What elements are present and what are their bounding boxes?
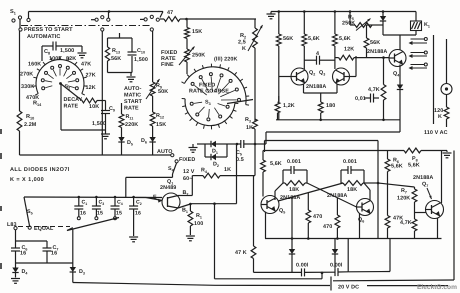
wire S5 to C6 — [15, 230, 17, 248]
wire 1.2K top — [278, 77, 280, 103]
trigger diode b — [332, 239, 338, 269]
label 4.7K ff — [400, 220, 412, 226]
label 1.2K — [283, 103, 295, 109]
wire Q5 emitter down — [265, 212, 267, 239]
wire C7 down — [46, 251, 48, 263]
svg-text:250K: 250K — [192, 53, 205, 59]
capacitor C3 — [92, 197, 101, 217]
arrow to Q7 — [427, 188, 432, 199]
resistor R6 5.6K — [385, 159, 390, 172]
capacitor C10 — [128, 52, 137, 55]
pot R2 2.5K — [248, 25, 263, 51]
wire lamp to 120K — [446, 95, 448, 108]
label 0.001 c — [296, 263, 309, 269]
diode Q4 emitter — [397, 85, 403, 133]
label R13 — [112, 48, 120, 55]
svg-text:0,01: 0,01 — [355, 96, 366, 102]
label 110 V AC — [424, 130, 448, 136]
svg-text:K: K — [438, 114, 442, 120]
wire R10 down — [19, 131, 21, 155]
transistor Q5 — [261, 196, 279, 214]
label 0.01 — [355, 96, 366, 102]
svg-text:RATE COARSE: RATE COARSE — [189, 89, 229, 95]
wiper S3 — [227, 100, 253, 104]
capacitor C2 — [129, 197, 138, 230]
svg-text:12 V: 12 V — [183, 169, 195, 175]
resistor 5.6K ff — [261, 160, 266, 172]
label 20 V DC — [338, 285, 359, 291]
label R11 value — [125, 122, 138, 128]
wire diode node down — [382, 25, 384, 35]
wire Q4 emitter down — [399, 65, 401, 85]
relay K1 contacts — [409, 38, 428, 71]
svg-text:2.2M: 2.2M — [24, 122, 37, 128]
svg-text:16: 16 — [80, 211, 86, 217]
svg-text:56K: 56K — [283, 36, 293, 42]
wire pole2 down — [101, 31, 103, 155]
label R6 — [393, 158, 399, 165]
label L83 — [7, 222, 17, 228]
box R13 C10 — [108, 38, 133, 73]
svg-text:15: 15 — [116, 211, 122, 217]
node top rail junction — [108, 10, 111, 13]
lamp — [441, 84, 452, 95]
label R14 — [33, 101, 42, 108]
label D3 — [79, 269, 85, 276]
wire box stub — [119, 33, 121, 38]
label 27K tap — [86, 73, 96, 79]
svg-text:2N188A: 2N188A — [306, 84, 326, 90]
resistor 56K a — [276, 34, 281, 46]
node C1 top — [78, 196, 81, 199]
label 120K — [434, 108, 443, 120]
wire C6 down — [15, 251, 17, 263]
cap 0.001 a loop — [283, 166, 307, 183]
pot 250K FINE — [179, 47, 195, 66]
label 160K — [28, 61, 41, 67]
wire 120K down — [446, 119, 448, 127]
label R1 value — [194, 221, 203, 227]
svg-text:47: 47 — [167, 10, 173, 16]
wire R2 feed — [254, 19, 256, 28]
switch pole2 contacts — [95, 16, 110, 32]
svg-text:5,6K: 5,6K — [308, 36, 320, 42]
capacitor C9 — [101, 111, 110, 114]
svg-text:RATE: RATE — [124, 106, 139, 112]
label D5 — [127, 140, 133, 147]
capacitor C5 — [237, 140, 255, 148]
label 2N188A q7 — [413, 175, 433, 181]
switch S1 label — [10, 9, 16, 16]
label 47K ff — [393, 216, 403, 222]
label R10 value — [24, 122, 37, 128]
wire R7 feed — [378, 183, 415, 187]
wire contact to lamp — [446, 39, 448, 84]
node Q4 base — [382, 56, 385, 59]
cross wire a — [307, 183, 357, 207]
rotary switch S3 lower — [182, 99, 239, 130]
wire K1 to Q4 collector — [383, 31, 416, 50]
wire right edge — [453, 151, 455, 281]
svg-text:2,5: 2,5 — [238, 40, 246, 46]
label C1 — [82, 200, 88, 207]
label R8 — [412, 156, 418, 163]
wire 5.6K b feed — [303, 12, 305, 35]
speck 2 — [0, 153, 2, 159]
wire contact feed right — [433, 35, 435, 124]
transistor Q1 2N489 — [162, 193, 180, 211]
wire R9 to R12 — [152, 96, 154, 112]
wire diode bus — [16, 262, 73, 264]
relay K1 coil — [411, 21, 422, 31]
wire emitter bus — [304, 84, 338, 102]
wire S1 riser — [28, 12, 30, 19]
label 10K — [89, 104, 99, 110]
label R7 value — [397, 196, 410, 202]
label C5 — [236, 150, 242, 157]
wire C6 C7 top link — [16, 241, 48, 248]
pot R5 250K — [350, 12, 372, 31]
svg-text:270K: 270K — [20, 72, 33, 78]
svg-text:60~: 60~ — [183, 176, 192, 182]
wire S2 common to ground bus — [61, 84, 106, 130]
resistor 47K ff — [385, 216, 390, 239]
resistor 470 a — [306, 193, 311, 240]
wire Q2 base — [278, 46, 280, 77]
label 2N188A q6 — [327, 193, 347, 199]
dashed link EQUAL — [18, 226, 70, 228]
diode network D1 — [205, 141, 227, 147]
resistor 47K bl — [251, 176, 256, 273]
resistor 5.6K c — [333, 34, 338, 46]
svg-text:1,500: 1,500 — [60, 48, 74, 54]
wire B1 to R1 — [178, 203, 192, 211]
svg-text:15: 15 — [97, 211, 103, 217]
label Q1 — [167, 179, 173, 186]
label K1 — [424, 22, 430, 29]
label R7 — [401, 188, 407, 195]
label C9 value — [92, 121, 106, 127]
wire D6 down — [152, 142, 154, 155]
svg-text:AUTOMATIC: AUTOMATIC — [27, 34, 60, 40]
label FIXED — [179, 157, 195, 163]
resistor 15K — [185, 28, 190, 39]
transistor Q2 — [291, 68, 308, 85]
svg-text:16: 16 — [135, 211, 141, 217]
svg-text:1K: 1K — [224, 167, 231, 173]
svg-text:1K: 1K — [246, 125, 253, 131]
wire R6 bottom — [387, 172, 389, 216]
label 2N188A q5 — [280, 195, 300, 201]
switch S5 arm — [24, 197, 30, 226]
wire C9 bottom — [105, 114, 107, 131]
wire 56K a feed — [278, 12, 280, 35]
ground top rail — [267, 12, 276, 19]
wire loop b to x378 — [364, 182, 378, 184]
svg-text:1,500: 1,500 — [134, 57, 148, 63]
cap 0.001 b loop — [341, 166, 364, 183]
label Q5 — [279, 208, 285, 215]
label 56K d — [370, 40, 380, 46]
label R10 — [26, 114, 34, 121]
label C3 — [99, 200, 105, 207]
watermark — [417, 284, 457, 291]
trigger diode a — [289, 198, 295, 273]
label R12 — [156, 113, 164, 120]
svg-text:0.001: 0.001 — [343, 159, 357, 165]
wire D1 top side — [197, 143, 205, 145]
label C3 value — [97, 211, 103, 217]
svg-text:2N188A: 2N188A — [367, 49, 387, 55]
ground D1 D2 — [189, 144, 198, 152]
svg-text:16: 16 — [20, 251, 26, 257]
wire D3 top — [72, 229, 74, 267]
wire B2 vertical drop — [214, 204, 216, 279]
label 470 b — [323, 224, 332, 230]
riser A — [347, 239, 349, 272]
diode D6 — [149, 137, 155, 142]
wire 56K d feed — [367, 25, 373, 38]
label R5 value — [342, 21, 355, 27]
wire C8 to ground — [81, 46, 83, 52]
svg-text:120K: 120K — [397, 196, 410, 202]
wire Q2 base lead — [279, 76, 291, 78]
wire Q1 emitter — [136, 198, 163, 203]
wiper S2 — [61, 84, 83, 101]
wire left vertical bus — [19, 31, 21, 111]
svg-text:K: K — [242, 46, 246, 52]
wire S4 to cap bus — [126, 174, 173, 197]
label 18K a — [289, 187, 299, 193]
label C8 value — [60, 48, 74, 54]
label Q3 — [319, 70, 325, 77]
label 4 — [316, 51, 319, 57]
label R2 — [240, 33, 246, 40]
label Q7 — [422, 182, 428, 189]
transistor Q7 — [426, 201, 444, 219]
resistor 4.7K q4 — [381, 85, 386, 101]
diode network D2 — [205, 154, 227, 160]
label 470 a — [313, 214, 322, 220]
svg-text:AUTO-: AUTO- — [124, 86, 142, 92]
label 0.001 d — [330, 263, 343, 269]
svg-text:56K: 56K — [111, 56, 121, 62]
switch S4 arm — [173, 163, 177, 174]
coupling cap 4 — [304, 56, 335, 65]
label C2 value — [135, 211, 141, 217]
wire R4 to B2 — [191, 176, 193, 196]
label D6 — [141, 138, 147, 145]
label AUTOMATIC — [27, 34, 60, 40]
svg-text:ElecktG.com: ElecktG.com — [417, 284, 457, 291]
label C8 — [44, 49, 50, 56]
label Q6 — [358, 217, 364, 224]
label 12V 60~ — [183, 169, 195, 182]
resistor R12 15K — [150, 112, 155, 126]
label FIXED RATE FINE — [161, 50, 177, 68]
node C3 bottom contact — [95, 217, 98, 220]
transistor Q3 — [333, 68, 350, 85]
label 47 — [167, 10, 173, 16]
wire R5 to diode node — [372, 24, 383, 26]
wire R3 bottom — [254, 129, 256, 144]
svg-text:AUTO: AUTO — [157, 149, 173, 155]
label 100K — [49, 56, 62, 62]
switch pole3 contacts — [144, 15, 159, 31]
riser B — [389, 239, 391, 272]
label R9 value — [158, 89, 168, 95]
label R5 — [348, 15, 354, 22]
wire main bus — [265, 238, 442, 240]
svg-text:FINE: FINE — [161, 62, 174, 68]
wire rail to K1 — [415, 12, 417, 22]
label C1 value — [80, 211, 86, 217]
speck 4 — [0, 263, 2, 269]
label 4.7K q4 — [368, 87, 380, 93]
svg-text:50K: 50K — [158, 89, 168, 95]
capacitor C8 — [42, 42, 82, 51]
selector wire cap bottoms — [67, 218, 119, 231]
node S2 center — [59, 82, 62, 85]
label R2 value — [238, 40, 246, 53]
dash-dot mechanical link — [21, 25, 151, 27]
wire bottom-left bus — [20, 154, 172, 156]
svg-text:56K: 56K — [370, 40, 380, 46]
ground C2 — [129, 230, 138, 242]
label C6 — [22, 245, 28, 252]
label Q2 — [309, 70, 315, 77]
label 47K tap — [81, 61, 91, 67]
svg-text:5,6K: 5,6K — [391, 164, 403, 170]
label S4 — [168, 166, 175, 173]
label S2 — [65, 84, 71, 91]
wire top rail right — [271, 10, 416, 13]
svg-text:110 V AC: 110 V AC — [424, 130, 448, 136]
svg-text:5,6K: 5,6K — [270, 161, 282, 167]
cap 0.001 d — [335, 268, 338, 276]
svg-text:2N188A: 2N188A — [413, 175, 433, 181]
resistor R13 56K — [105, 47, 109, 61]
flyback diode — [380, 12, 386, 26]
trigger line B1 — [190, 202, 236, 205]
diode D5 — [118, 137, 124, 142]
ground R1 — [186, 236, 195, 241]
wire R11 top — [121, 103, 123, 114]
label S5 — [27, 209, 33, 216]
resistor R10 2.2M — [17, 111, 22, 131]
pot R9 50K — [146, 79, 160, 99]
label B2 — [183, 190, 189, 197]
wire 4.7K column — [383, 58, 385, 85]
resistor R7 120K — [412, 187, 417, 202]
label R6 value — [391, 164, 403, 170]
label S3 — [205, 100, 211, 107]
wire trigger line upper — [266, 132, 400, 144]
wire 5.6K c feed — [334, 12, 336, 35]
svg-text:2N489: 2N489 — [160, 185, 176, 191]
svg-text:27K: 27K — [86, 73, 96, 79]
label 12K tap — [86, 85, 96, 91]
svg-text:18K: 18K — [289, 187, 299, 193]
svg-text:220K: 220K — [125, 122, 138, 128]
wire 56K d bottom — [366, 48, 368, 58]
svg-text:START: START — [124, 99, 143, 105]
resistor 180 — [318, 102, 323, 113]
wire C10 ground stem — [130, 73, 132, 77]
wire R12 to D6 — [152, 126, 154, 137]
wire Q7 base — [415, 212, 426, 214]
svg-text:RATE: RATE — [64, 104, 79, 110]
wire 10K to C9 — [105, 101, 107, 111]
ground C9 — [101, 130, 110, 139]
wire 4.7K bottom — [383, 100, 385, 120]
capacitor C1 — [74, 197, 83, 217]
label 0.001 b — [343, 159, 357, 165]
node C4 top — [114, 196, 117, 199]
label C7 value — [51, 251, 57, 257]
svg-text:4: 4 — [316, 51, 319, 57]
label 5.6K c — [339, 36, 351, 42]
capacitor C6 — [11, 248, 20, 251]
label D2 — [213, 162, 219, 169]
wire R1 down — [189, 226, 191, 235]
wire R3 node down to R4 — [254, 144, 256, 176]
wire lower bus q23 — [276, 113, 400, 121]
svg-text:470: 470 — [323, 224, 332, 230]
label C6 value — [20, 251, 26, 257]
label 2N489 — [160, 185, 176, 191]
svg-text:180: 180 — [326, 103, 335, 109]
label R4 value — [224, 167, 231, 173]
wire 4.7K ff bottom — [414, 231, 416, 239]
svg-text:16: 16 — [51, 251, 57, 257]
wire pole2 stub — [91, 19, 95, 21]
wire Q6 collector — [364, 183, 370, 200]
svg-text:47 K: 47 K — [235, 250, 247, 256]
resistor 1.2K — [275, 96, 280, 120]
svg-text:18K: 18K — [347, 187, 357, 193]
wire Q2 collector — [303, 46, 305, 69]
label R4 — [201, 168, 208, 175]
svg-text:15K: 15K — [156, 122, 166, 128]
wire Q7 collector — [441, 151, 443, 204]
svg-text:4,7K: 4,7K — [368, 87, 380, 93]
svg-text:0.00l: 0.00l — [296, 263, 309, 269]
label PRESS TO START — [24, 27, 73, 33]
label C7 — [53, 245, 59, 252]
resistor 4.7K ff — [412, 219, 417, 231]
resistor 10K — [82, 98, 106, 103]
svg-text:0.5: 0.5 — [236, 157, 244, 163]
wire R9 top — [152, 31, 154, 82]
resistor 12K — [335, 55, 389, 60]
svg-text:DECAY: DECAY — [64, 97, 83, 103]
riser to C5 node — [236, 144, 238, 204]
label R9 — [156, 83, 162, 90]
resistor 18K b — [341, 181, 364, 186]
wire Q3 base lead — [350, 56, 357, 77]
label ALL DIODES — [10, 167, 70, 173]
label Q4 — [393, 71, 400, 78]
wire pole3 stub — [140, 18, 144, 20]
wire right long vertical — [377, 141, 379, 239]
label (III) 220K — [214, 57, 237, 63]
wire D5 down — [121, 142, 123, 155]
svg-text:1,500: 1,500 — [92, 121, 106, 127]
resistor R11 220K — [119, 114, 124, 128]
label 15K — [192, 29, 202, 35]
svg-text:0.00l: 0.00l — [330, 263, 343, 269]
